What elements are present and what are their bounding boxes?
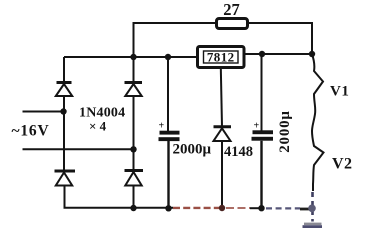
- wire: riser to 27-ohm resistor: [134, 23, 217, 57]
- resistor R 27 body: [217, 19, 248, 29]
- wire: left branch between AC junction and D3: [63, 112, 65, 171]
- wire: right bridge branch upper segment: [133, 57, 135, 82]
- regulator U1 7812 box: [198, 47, 245, 68]
- wire: right branch from D4 to bottom rail: [133, 186, 135, 209]
- svg-text:2000μ: 2000μ: [173, 142, 212, 158]
- node: top rail / C1 branch: [165, 54, 171, 60]
- capacitor C2 plates: [252, 121, 274, 141]
- node: output rail / C2 branch: [259, 51, 265, 57]
- wire: bottom rail red dashed segment 2: [226, 207, 250, 209]
- wire: wavy output tap line with V1/V2 cusps: [312, 54, 324, 191]
- node: bottom rail / D5 branch: [219, 205, 225, 211]
- wire: bottom rail black segment before C2: [250, 207, 262, 209]
- svg-text:4148: 4148: [224, 144, 253, 160]
- node: top rail / right branch / 27-ohm branch: [130, 54, 136, 60]
- diode D1 (1N4004 upper-left of bridge): [56, 83, 72, 97]
- svg-text:7812: 7812: [207, 50, 235, 65]
- wire: right branch between AC junction and D4: [133, 149, 135, 170]
- wire: upper AC input lead: [23, 111, 65, 113]
- ground symbol bars: [303, 223, 323, 228]
- diode D4 (1N4004 lower-right of bridge): [125, 171, 144, 186]
- wire: bottom rail red dashed segment 1: [173, 207, 220, 209]
- wire: dashed stem of V line into ground: [311, 192, 314, 222]
- wire: bottom rail blue dashed segment: [266, 207, 300, 209]
- node: bottom rail / right bridge branch: [130, 205, 136, 211]
- svg-text:27: 27: [223, 0, 240, 19]
- wire: lower AC input lead: [23, 148, 134, 150]
- capacitor C1 plates: [159, 121, 180, 142]
- svg-text:+: +: [159, 121, 165, 132]
- wire: 7812 output rail: [244, 53, 312, 55]
- svg-text:V2: V2: [332, 156, 353, 173]
- node: junction upper AC / left branch: [60, 108, 66, 114]
- diode D2 (1N4004 upper-right of bridge): [125, 83, 143, 97]
- svg-text:2000μ: 2000μ: [277, 110, 293, 153]
- node: output rail corner / V line: [309, 51, 315, 57]
- diode D3 (1N4004 lower-left of bridge): [55, 171, 76, 186]
- wire: top rail from bridge to 7812 input: [64, 56, 197, 58]
- capacitor C1 lower lead: [167, 141, 169, 209]
- wire: left bridge branch upper segment: [63, 57, 65, 82]
- wire: 7812 ground pin down to D5: [221, 68, 222, 127]
- wire: bottom rail black stub before ground: [300, 208, 309, 211]
- wire: left branch between D1 and AC junction: [63, 96, 65, 112]
- svg-text:+: +: [254, 121, 260, 132]
- node: bottom rail / C2 branch: [258, 205, 264, 211]
- capacitor C2 lower lead: [260, 141, 262, 209]
- wire: right branch between D2 and lower AC junction: [133, 96, 135, 149]
- svg-text:V1: V1: [330, 84, 349, 100]
- node: ground junction blob: [308, 205, 316, 213]
- svg-text:× 4: × 4: [89, 118, 107, 133]
- wire: D5 anode to bottom rail: [221, 141, 223, 208]
- capacitor C2 2000u upper lead: [261, 54, 263, 131]
- wire: left branch bottom corner to bottom rail: [65, 186, 174, 208]
- node: bottom rail / C1 branch: [165, 205, 171, 211]
- wire: from resistor to right corner and down to output rail: [248, 23, 313, 54]
- diode D5 4148: [214, 127, 232, 141]
- capacitor C1 2000u upper lead: [167, 57, 169, 131]
- node: junction lower AC / right branch: [130, 146, 136, 152]
- svg-text:~16V: ~16V: [12, 123, 50, 140]
